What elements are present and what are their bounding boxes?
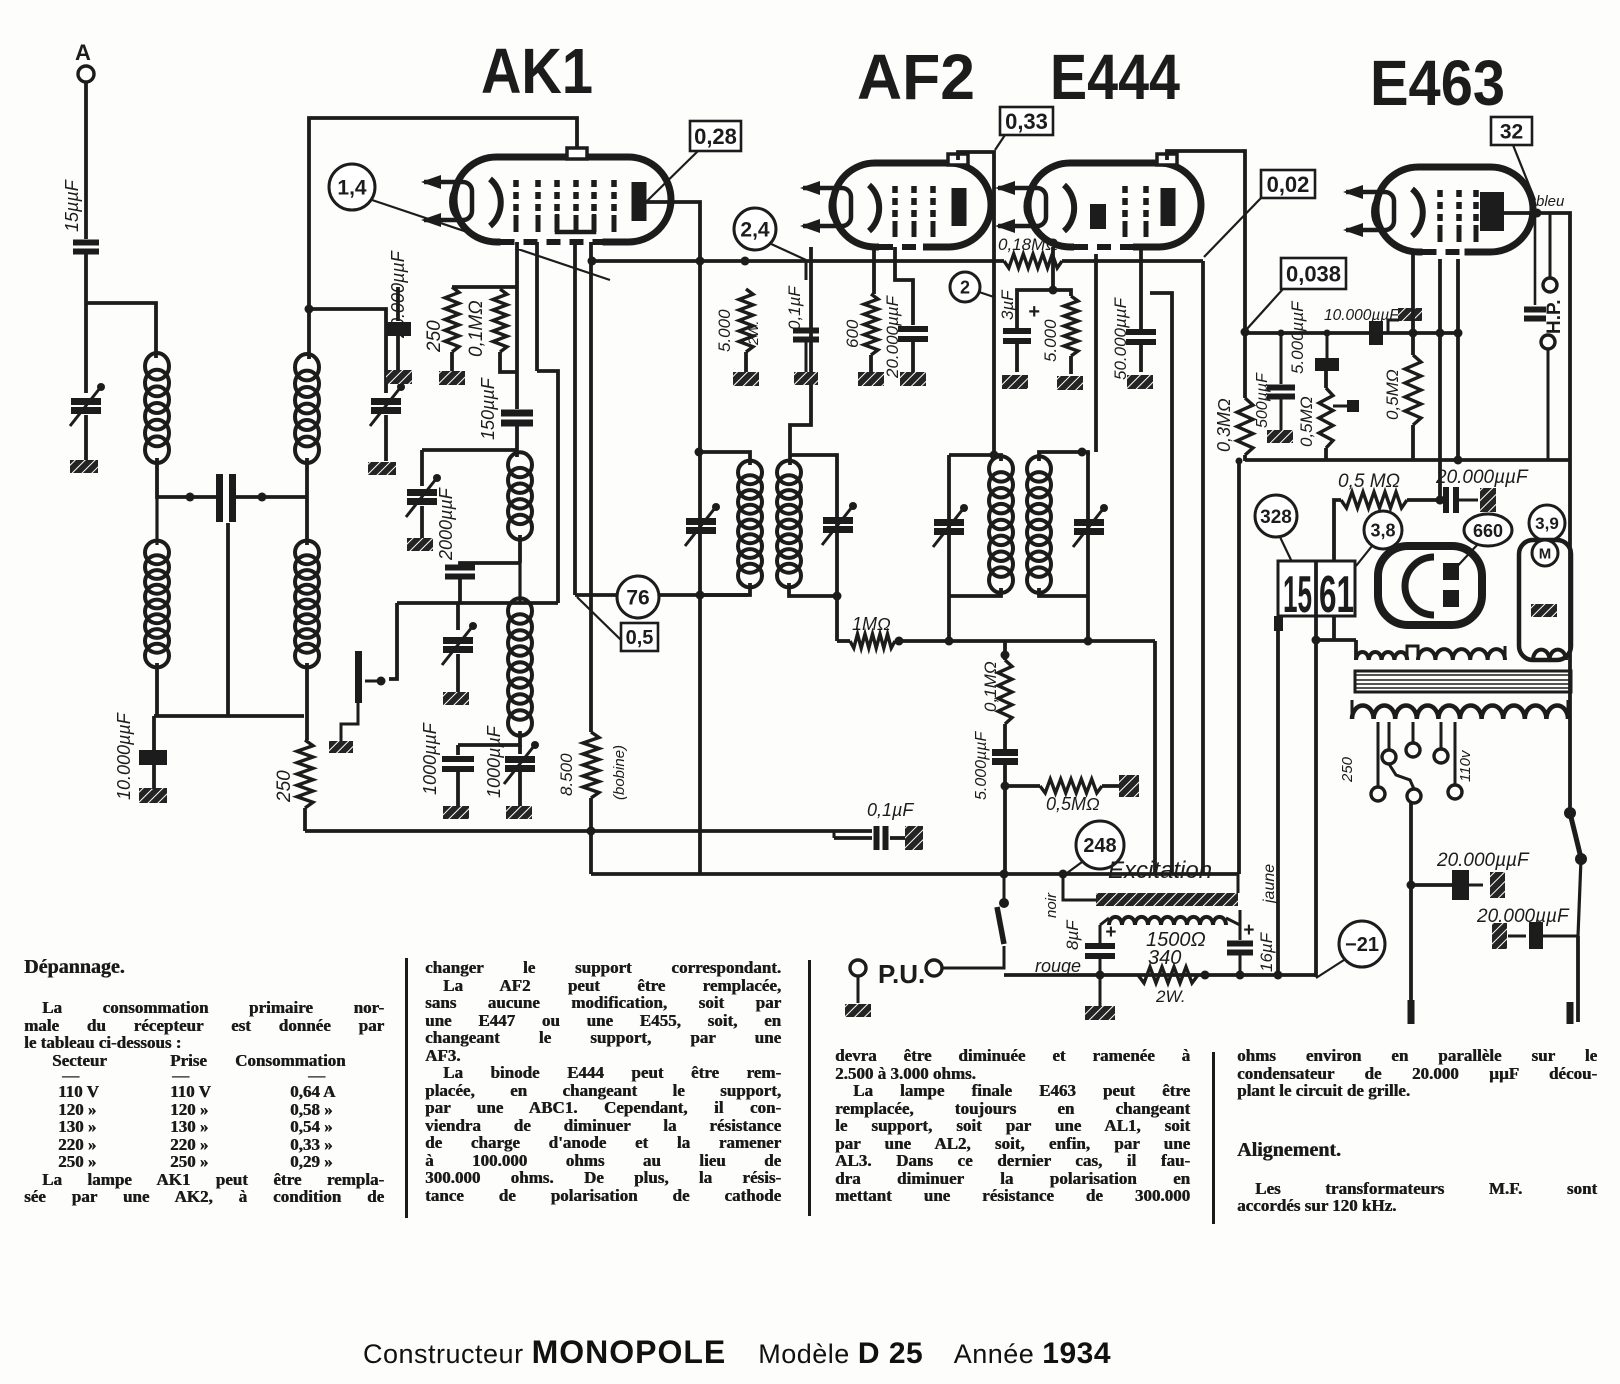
circled label 2 xyxy=(950,272,980,302)
resistor 5.000 (bias) xyxy=(1064,296,1078,356)
leader from 1,4 to cathode node xyxy=(372,200,610,280)
coil L1a (antenna primary top) xyxy=(145,353,169,380)
wire: grid bus of E463 xyxy=(1245,331,1458,335)
wire: AK1 osc-anode lead to 8.500 xyxy=(589,242,593,732)
leader 328 xyxy=(1280,537,1292,562)
boxed label 0,5 xyxy=(621,623,658,651)
svg-text:noir: noir xyxy=(1043,892,1060,918)
svg-text:AF2: AF2 xyxy=(857,41,975,113)
field coil (Excitation) core bar xyxy=(1096,893,1238,906)
circled label 2,4 xyxy=(734,208,776,250)
ground plate (hatched) xyxy=(386,370,412,384)
circled label 328 xyxy=(1255,495,1297,537)
junction xyxy=(588,257,597,266)
svg-text:1,4: 1,4 xyxy=(337,177,367,200)
svg-text:0,038: 0,038 xyxy=(1286,261,1341,286)
wire: IF2 sec bottom xyxy=(1039,588,1088,596)
boxed label 0,28 xyxy=(690,121,741,151)
wire: IF2 primary top xyxy=(949,455,1001,461)
wire: jaune vertical xyxy=(1314,561,1318,977)
svg-text:(bobine): (bobine) xyxy=(611,745,628,800)
divider 3 xyxy=(1212,1052,1215,1224)
svg-text:+: + xyxy=(1243,920,1254,941)
speaker coil xyxy=(1533,650,1566,660)
IF2 right vertical (to AVC) xyxy=(1086,452,1090,641)
svg-text:15: 15 xyxy=(1283,566,1312,624)
wire: L1b bottom to lower bus xyxy=(155,663,159,716)
wire: link to output transformer xyxy=(1316,638,1356,642)
junction rouge xyxy=(1096,971,1105,980)
svg-text:500µµF: 500µµF xyxy=(1254,372,1271,428)
resistor 0,18MΩ (inline) xyxy=(1004,254,1062,268)
svg-text:660: 660 xyxy=(1473,521,1503,541)
svg-text:2W.: 2W. xyxy=(745,321,761,346)
resistor 0,5MΩ (E463 cathode) xyxy=(1405,355,1421,425)
svg-text:250: 250 xyxy=(1339,756,1356,783)
leader 248 xyxy=(1063,862,1082,876)
wire: HP feed xyxy=(1549,213,1552,278)
wire: 0,1MΩ to 150µµF xyxy=(500,352,517,372)
svg-text:32: 32 xyxy=(1500,121,1523,144)
ground xyxy=(407,538,433,551)
svg-text:5.000µµF: 5.000µµF xyxy=(973,731,990,800)
junction dots on grid bus xyxy=(1278,330,1285,337)
leader 0,5 xyxy=(577,597,621,640)
svg-text:Excitation: Excitation xyxy=(1108,857,1212,884)
svg-text:20.000µµF: 20.000µµF xyxy=(1436,850,1530,871)
ground (hatched) xyxy=(1267,430,1293,443)
wire: E444 grid-bus drop xyxy=(1201,261,1205,874)
junction xyxy=(1201,971,1210,980)
text column 1: Depannage xyxy=(24,959,384,1206)
IF2 primary coil xyxy=(989,456,1013,481)
junction xyxy=(305,305,314,314)
output transformer core ring xyxy=(1378,546,1482,625)
svg-text:0,5MΩ: 0,5MΩ xyxy=(1383,369,1402,420)
svg-text:0,1µF: 0,1µF xyxy=(867,800,914,820)
wire: E463 anode (bleu) to right rail xyxy=(1504,213,1570,460)
text column 3 xyxy=(835,1047,1190,1205)
wire: L2b to resistor 250 xyxy=(305,663,309,740)
svg-text:2000µµF: 2000µµF xyxy=(436,487,456,561)
variable capacitor IF2-a xyxy=(934,523,964,532)
coil L1b (antenna secondary bottom) xyxy=(145,541,169,565)
wire: PU ground stub xyxy=(857,976,860,1003)
svg-text:10.000µµF: 10.000µµF xyxy=(114,712,134,800)
leader 2,4 xyxy=(769,243,806,260)
svg-text:0,33: 0,33 xyxy=(1005,109,1048,134)
boxed label 32 xyxy=(1491,117,1532,145)
ground xyxy=(506,806,532,819)
wire: antenna down-lead xyxy=(84,82,88,239)
svg-text:M: M xyxy=(1539,545,1552,562)
wire: AK1 anode to HT vertical xyxy=(646,202,700,874)
variable capacitor (osc tuning) xyxy=(420,450,424,486)
wire: field coil ends xyxy=(1100,918,1109,925)
ground (250) xyxy=(450,352,454,371)
svg-text:rouge: rouge xyxy=(1035,956,1081,976)
wire: padder to ground xyxy=(384,415,388,461)
wire: IF1 primary top xyxy=(700,452,750,465)
junction xyxy=(895,637,904,646)
arrow tap xyxy=(1333,405,1349,408)
wire: 250 to bottom bus xyxy=(303,808,307,831)
wire: coupling cap to L1b xyxy=(234,495,307,499)
svg-text:8.500: 8.500 xyxy=(557,753,576,796)
coil L3b (oscillator lower) xyxy=(508,598,532,624)
svg-text:0,1MΩ: 0,1MΩ xyxy=(981,661,1000,712)
svg-text:2W.: 2W. xyxy=(1155,987,1186,1006)
wire: screen bus y261 xyxy=(591,259,1004,263)
svg-text:0,5MΩ: 0,5MΩ xyxy=(1046,794,1100,814)
wire: C1 to ground xyxy=(84,415,88,460)
tube AF2 (IF pentode) xyxy=(833,163,991,247)
wire: E444 screen to 50.000µµF xyxy=(1139,247,1143,329)
junction xyxy=(1001,782,1010,791)
speaker (M) xyxy=(1519,540,1571,660)
svg-text:2: 2 xyxy=(960,277,970,297)
svg-text:250: 250 xyxy=(274,770,295,803)
wire: E463 grid lead xyxy=(1456,252,1460,460)
resistor 0,1MΩ xyxy=(493,289,507,352)
svg-text:0,02: 0,02 xyxy=(1267,172,1310,197)
potentiometer 0,5MΩ (volume) xyxy=(1040,779,1102,793)
svg-text:600: 600 xyxy=(843,319,862,348)
coil L2a (RF coil top) xyxy=(295,354,319,380)
wire: IF2 sec top xyxy=(1039,452,1088,461)
leader 3,8 xyxy=(1356,546,1372,566)
wire: noir drop xyxy=(1063,874,1096,900)
svg-text:1000µµF: 1000µµF xyxy=(420,722,440,795)
resistor 250 (grid) xyxy=(445,287,459,352)
junction xyxy=(587,827,596,836)
circled label 3,9 xyxy=(1529,505,1565,541)
leader 660 xyxy=(1452,544,1478,572)
wire: osc coil tap xyxy=(518,535,522,563)
svg-text:1000µµF: 1000µµF xyxy=(484,725,504,798)
wire: IF1 sec top to AF2 grid xyxy=(790,247,811,465)
junction xyxy=(186,493,195,502)
wire: E444 top cap to E463 grid line xyxy=(1167,151,1245,332)
svg-text:110v: 110v xyxy=(1457,749,1474,782)
svg-text:+: + xyxy=(1105,922,1116,943)
wire: IF1 sec bottom xyxy=(789,583,837,596)
wire: down to PU switch xyxy=(1003,786,1007,874)
wire: chassis bus step into cap xyxy=(833,831,836,838)
wire: AF2 top cap to 0,33 node xyxy=(958,152,994,455)
boxed label 0,038 xyxy=(1281,258,1346,289)
svg-text:50.000µµF: 50.000µµF xyxy=(1111,296,1130,380)
IF2 secondary coil xyxy=(1027,456,1051,481)
wire: L1a bottom to coupling row xyxy=(157,458,218,497)
svg-text:150µµF: 150µµF xyxy=(478,377,498,440)
coil L2b (RF coil bottom) xyxy=(295,541,319,565)
svg-text:3,9: 3,9 xyxy=(1535,514,1559,533)
mains switch xyxy=(1564,807,1576,819)
divider 2 xyxy=(808,960,811,1216)
svg-text:P.U.: P.U. xyxy=(878,959,925,989)
svg-text:0,5: 0,5 xyxy=(626,627,654,649)
text column 4 xyxy=(1237,1047,1597,1215)
svg-text:248: 248 xyxy=(1083,835,1116,857)
junction bleu xyxy=(1533,209,1542,218)
ground (antenna tuner) xyxy=(70,460,98,473)
hatched end 0,5MΩ xyxy=(1119,775,1139,797)
circled label 248 xyxy=(1076,821,1124,869)
wire: osc top link xyxy=(422,448,517,452)
wire: E444 cathode to 3µF/5.000 xyxy=(1017,247,1053,328)
wire: cap tap down to bus xyxy=(226,523,230,716)
svg-text:250: 250 xyxy=(424,320,445,353)
svg-text:3µF: 3µF xyxy=(998,289,1017,320)
wire: winding drops xyxy=(1354,640,1358,660)
wire: top-cap line AK1 (left vertical) xyxy=(309,118,577,359)
ground (hatched) xyxy=(1127,375,1153,389)
wire: HT bottom bus xyxy=(1245,458,1570,462)
junction xyxy=(696,257,705,266)
P.U. terminals xyxy=(850,960,866,976)
circled label 1,4 xyxy=(329,164,375,210)
variable capacitor IF2-b xyxy=(1074,523,1104,532)
svg-text:8µF: 8µF xyxy=(1063,919,1082,950)
svg-text:0,5MΩ: 0,5MΩ xyxy=(1297,396,1316,447)
ground (switch) xyxy=(329,741,353,753)
caption xyxy=(363,1334,1111,1371)
svg-text:16µF: 16µF xyxy=(1257,931,1276,972)
divider 1 xyxy=(405,958,408,1218)
wire: lower-left bus xyxy=(154,714,304,718)
wire: right rail down to switch xyxy=(1568,460,1572,815)
wire: E463 screen lead xyxy=(1438,252,1442,500)
capacitor (HP) xyxy=(1524,310,1546,319)
transformer laminations xyxy=(1355,671,1571,692)
wire: left drop of 0,5MΩ xyxy=(1334,500,1341,640)
ground (3µF) xyxy=(1002,375,1028,389)
leader 0,02 xyxy=(1204,198,1261,257)
wire: PU to switch xyxy=(942,946,1004,968)
svg-text:61: 61 xyxy=(1319,566,1354,624)
tube E444 (binode) xyxy=(1028,163,1201,247)
svg-text:E463: E463 xyxy=(1370,47,1505,119)
leader 0,038 xyxy=(1246,289,1283,330)
svg-text:0,1µF: 0,1µF xyxy=(785,285,804,330)
wire: jaune lead (transformer) xyxy=(1274,616,1283,631)
box 15|61 voltage labels xyxy=(1278,561,1355,616)
svg-text:2,4: 2,4 xyxy=(740,219,770,242)
wire: AK1 grid lead g1 xyxy=(515,242,519,409)
wire: mains right rail xyxy=(1567,700,1570,719)
resistor 1MΩ (AVC) xyxy=(850,634,895,648)
leader 0,28 to anode wire xyxy=(647,151,698,201)
svg-text:5.000µµF: 5.000µµF xyxy=(1288,300,1307,374)
mains primary winding xyxy=(1352,706,1568,720)
svg-text:1MΩ: 1MΩ xyxy=(852,614,891,634)
IF2 left vertical xyxy=(947,455,951,641)
svg-text:76: 76 xyxy=(626,587,649,610)
ground xyxy=(900,372,926,386)
wire: branch to padder cap xyxy=(309,309,386,393)
capacitor (series coupling, vertical plates) xyxy=(220,474,233,522)
svg-text:bleu: bleu xyxy=(1536,193,1565,210)
tube E463 (output) xyxy=(1376,167,1533,252)
wire: g4 lead to junction 0,5 xyxy=(573,242,577,595)
svg-text:0,28: 0,28 xyxy=(694,124,737,149)
wire: y595 link xyxy=(575,593,748,597)
capacitor 2000µµF fixed xyxy=(445,568,475,577)
wire: AK1 g2 lead xyxy=(535,242,539,371)
variable capacitor (IF1 sec trim) xyxy=(823,521,853,530)
PU switch blade xyxy=(997,907,1004,944)
leader 0,33 xyxy=(995,135,1005,150)
tube AK1 (octode) xyxy=(454,157,671,242)
wire: IF1 primary bottom xyxy=(700,583,750,595)
capacitor 15µµF (antenna series) xyxy=(73,243,99,252)
wire: IF1 sec top link xyxy=(789,455,837,641)
wire: main lower bus (chassis return) xyxy=(305,829,872,833)
wire: AF2 cathode lead to 600 xyxy=(872,247,876,294)
resistor 5.000 2W (screen feed) xyxy=(739,289,753,352)
leader -21 xyxy=(1316,960,1344,978)
wire: AK1 lower bus to right xyxy=(589,831,593,874)
svg-text:328: 328 xyxy=(1260,507,1292,528)
resistor 250 (bias) xyxy=(297,740,313,808)
junction xyxy=(1409,329,1418,338)
svg-text:H.P.: H.P. xyxy=(1544,299,1565,334)
wire+ground 5.000 xyxy=(744,352,748,372)
wire: bus to field right xyxy=(1237,874,1240,893)
svg-text:+: + xyxy=(1028,301,1040,323)
wire: mains lead end xyxy=(1576,936,1580,1022)
wire: left bracket xyxy=(389,603,397,679)
circled label -21 xyxy=(1339,921,1385,967)
svg-text:5.000: 5.000 xyxy=(1041,319,1060,362)
svg-text:20.000µµF: 20.000µµF xyxy=(1476,906,1570,927)
svg-text:20.000µµF: 20.000µµF xyxy=(1435,467,1529,488)
svg-text:0,1MΩ: 0,1MΩ xyxy=(466,300,487,357)
tap slider curve xyxy=(1389,764,1414,789)
resistor 600 (cathode) xyxy=(864,294,878,355)
wire: HT line down-left xyxy=(1409,803,1413,1020)
boxed label 0,33 xyxy=(1000,107,1053,135)
wire: link to 1MΩ xyxy=(837,639,850,643)
wire: switch to bus xyxy=(1003,874,1006,903)
HP terminal top xyxy=(1543,278,1557,292)
svg-text:jaune: jaune xyxy=(1261,864,1278,905)
leader 2 xyxy=(979,292,994,297)
svg-text:340: 340 xyxy=(1148,947,1181,969)
boxed label 0,02 xyxy=(1261,170,1315,198)
text column 2 xyxy=(425,959,781,1204)
wire: rouge bus xyxy=(1004,973,1316,977)
svg-text:0,5 MΩ: 0,5 MΩ xyxy=(1338,471,1400,492)
resistor 0,5MΩ (grid leak) xyxy=(1319,388,1333,448)
wire: L3b bottom to 1000µµF junction xyxy=(458,731,520,745)
output transformer windings xyxy=(1356,652,1407,660)
svg-text:5.000: 5.000 xyxy=(715,309,734,352)
wire: HT riser right of E444 xyxy=(1237,461,1241,874)
wire: L2a to L2b xyxy=(305,458,309,545)
wire: links resistor tops xyxy=(452,285,517,289)
wire: antenna cap to junction xyxy=(84,252,88,393)
svg-text:AK1: AK1 xyxy=(481,35,593,107)
wire: AVC right drop xyxy=(1153,641,1157,874)
field coil winding xyxy=(1109,917,1226,925)
resistor 0,3MΩ xyxy=(1237,398,1253,455)
ground (8µF) xyxy=(1085,1006,1115,1020)
resistor 8.500 (bobine) xyxy=(583,732,599,798)
switch bar (band change) xyxy=(355,651,362,703)
wire: AVC bus xyxy=(895,639,1155,643)
variable capacitor (osc padder) xyxy=(371,402,401,411)
svg-text:−21: −21 xyxy=(1345,934,1379,956)
circled label 660 xyxy=(1464,514,1512,546)
arrow end B+ xyxy=(1408,1000,1415,1024)
variable capacitor C1 (antenna tuning) xyxy=(71,402,101,411)
svg-text:E444: E444 xyxy=(1050,41,1180,113)
wire: osc grid line xyxy=(397,601,558,605)
wire: to oscillator coil xyxy=(515,423,519,457)
variable capacitor (osc trimmer) xyxy=(456,603,460,630)
wire: to 20.000 cap xyxy=(396,287,400,321)
IF1 secondary coil xyxy=(777,461,801,485)
mains taps xyxy=(1351,700,1354,719)
variable capacitor (IF1 trim) xyxy=(686,522,716,531)
antenna terminal A xyxy=(78,66,94,82)
ground xyxy=(443,692,469,705)
ground (5.000) xyxy=(1057,376,1083,390)
coil L3a (oscillator) xyxy=(508,452,532,477)
ground (padder) xyxy=(368,462,396,475)
svg-text:15µµF: 15µµF xyxy=(62,179,82,232)
wire: IF2 primary bottom xyxy=(949,588,1001,596)
wire: E444 grid feed xyxy=(1094,247,1098,452)
resistor 0,1MΩ (detector load) xyxy=(998,660,1012,724)
leader 32 xyxy=(1513,145,1535,200)
junction xyxy=(1241,328,1250,337)
wire: E463 cathode lead xyxy=(1411,252,1415,333)
circled label 3,8 xyxy=(1364,511,1402,549)
HP terminal bottom xyxy=(1541,335,1555,349)
wire: E444 heater return drop xyxy=(1150,293,1172,874)
svg-text:0,3MΩ: 0,3MΩ xyxy=(1214,398,1234,452)
junction xyxy=(258,493,267,502)
svg-text:A: A xyxy=(75,40,91,65)
wire: B+ bus (Excitation) xyxy=(591,872,1238,876)
circled label 76 xyxy=(617,576,659,618)
ground xyxy=(443,806,469,819)
wire: branch to tuning coil L1 xyxy=(86,303,156,358)
IF1 primary coil xyxy=(738,461,762,485)
ground (600) xyxy=(858,372,884,386)
svg-text:3,8: 3,8 xyxy=(1370,520,1395,540)
